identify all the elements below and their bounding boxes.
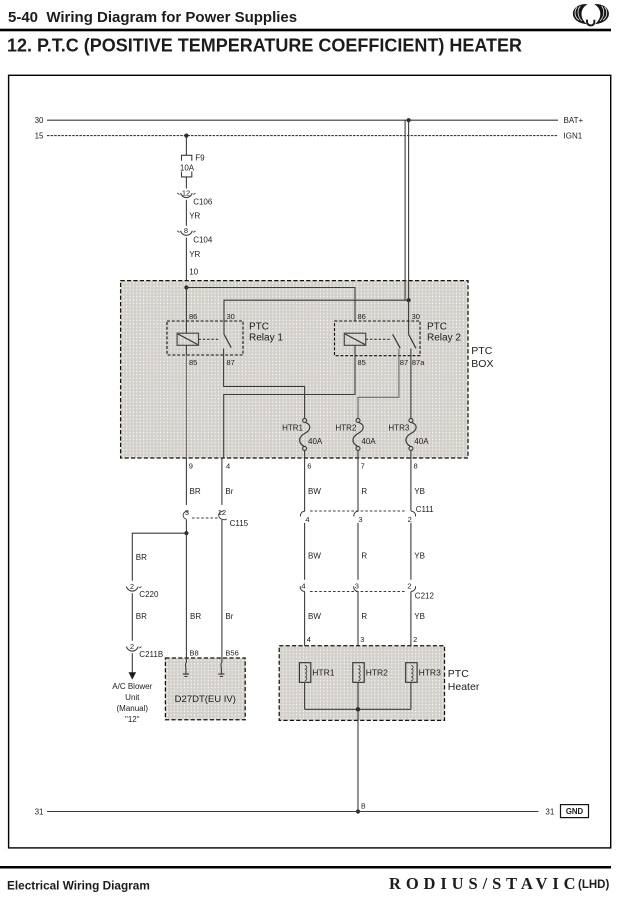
svg-text:YB: YB xyxy=(414,487,425,496)
svg-text:85: 85 xyxy=(189,358,197,367)
wire C220 to C211B, colour BR xyxy=(131,593,133,641)
svg-text:PTC: PTC xyxy=(448,668,469,680)
svg-text:40A: 40A xyxy=(361,437,376,446)
svg-text:BR: BR xyxy=(136,553,147,562)
svg-text:30: 30 xyxy=(412,312,420,321)
svg-text:3: 3 xyxy=(358,515,362,524)
svg-text:HTR2: HTR2 xyxy=(366,668,388,678)
svg-text:HTR1: HTR1 xyxy=(312,668,334,678)
svg-text:R: R xyxy=(361,612,367,621)
svg-text:PTC: PTC xyxy=(249,321,269,332)
wire C115 pin12 down to B56, colour Br xyxy=(221,519,223,651)
footer rule xyxy=(0,866,611,869)
wire battery junction to relay1 30 xyxy=(224,300,409,321)
wire C104 down, colour YR xyxy=(185,238,187,288)
junction node battery feed in box xyxy=(407,298,411,302)
svg-text:B8: B8 xyxy=(190,648,199,657)
wire ground line 31 xyxy=(47,811,539,813)
connector C111 pin 3 xyxy=(354,511,363,524)
wire HTR2 to bus xyxy=(357,682,359,709)
svg-text:(Manual): (Manual) xyxy=(117,704,149,713)
connector C212 pin 4 xyxy=(300,581,305,591)
svg-text:R: R xyxy=(361,487,367,496)
svg-text:BR: BR xyxy=(190,612,201,621)
relay K2 coil xyxy=(344,333,365,345)
relay K1 coil to switch link xyxy=(199,338,220,340)
svg-text:2: 2 xyxy=(408,515,412,524)
svg-text:BOX: BOX xyxy=(471,358,493,370)
svg-text:C211B: C211B xyxy=(139,650,163,659)
heater element HTR3 xyxy=(406,663,417,683)
wire HTR1 to bus xyxy=(304,682,306,709)
fuse HTR3 40A xyxy=(406,418,416,450)
wire relay K2 coil out to 85 xyxy=(354,345,356,355)
wire pin8 to C111 pin2, colour YB xyxy=(410,458,412,511)
heater element HTR2 xyxy=(353,663,364,683)
svg-text:12: 12 xyxy=(182,188,190,197)
relay K1 switch pin 30 stub xyxy=(223,321,225,334)
wire battery junction to relay2 30 xyxy=(408,300,410,334)
svg-text:31: 31 xyxy=(545,808,554,817)
wire B8 into box xyxy=(184,652,187,674)
svg-text:31: 31 xyxy=(35,808,44,817)
PTC BOX enclosure xyxy=(121,281,468,458)
wire line 15 IGN1 xyxy=(47,135,558,137)
wire B56 into box xyxy=(220,652,223,674)
relay K2 pin 87a stub xyxy=(410,349,412,356)
svg-text:C111: C111 xyxy=(416,505,434,514)
wire C212 pin3 to heater pin3, colour R xyxy=(357,592,359,663)
wire fuse HTR3 to box pin 8 xyxy=(410,450,412,458)
wire pin10 junction down to relay1 86 xyxy=(185,288,187,334)
connector C115 link xyxy=(192,517,219,519)
svg-text:YR: YR xyxy=(189,250,200,259)
svg-text:PTC: PTC xyxy=(471,345,492,357)
svg-text:40A: 40A xyxy=(308,437,323,446)
wire C115 pin3 down to junction xyxy=(185,519,187,533)
wire branch to A/C blower xyxy=(132,533,186,581)
junction node on line 31 xyxy=(356,809,360,813)
svg-text:YB: YB xyxy=(414,612,425,621)
svg-text:10: 10 xyxy=(189,268,198,277)
svg-text:2: 2 xyxy=(130,582,134,591)
battery feed double wire xyxy=(405,120,409,300)
svg-text:87: 87 xyxy=(400,358,408,367)
svg-text:8: 8 xyxy=(184,226,188,235)
svg-text:Relay 1: Relay 1 xyxy=(249,332,283,343)
GND box xyxy=(561,805,589,818)
wire fuse to C106 xyxy=(185,177,187,189)
svg-text:Heater: Heater xyxy=(448,681,480,693)
heater ground bus xyxy=(305,708,411,710)
svg-text:BW: BW xyxy=(308,612,321,621)
svg-text:2: 2 xyxy=(413,635,417,644)
svg-text:HTR1: HTR1 xyxy=(282,423,303,432)
wire pin10 junction to relay2 86 xyxy=(186,288,355,322)
wire C211B to arrow xyxy=(131,653,133,672)
wire pin9 to C115 pin3, colour BR xyxy=(185,458,187,505)
svg-text:5-40 Wiring Diagram for Power: 5-40 Wiring Diagram for Power Supplies xyxy=(8,9,297,26)
wire bus to ground line 31 xyxy=(357,709,359,811)
wire relay K2 85 to box pin 4 xyxy=(224,356,355,458)
svg-text:BAT+: BAT+ xyxy=(564,116,584,125)
svg-text:87: 87 xyxy=(227,358,235,367)
svg-text:86: 86 xyxy=(358,312,366,321)
svg-text:2: 2 xyxy=(130,642,134,651)
wire HTR3 to bus xyxy=(410,682,412,709)
svg-text:HTR3: HTR3 xyxy=(388,423,409,432)
fuse HTR2 40A xyxy=(353,418,363,450)
wire fuse HTR2 to box pin 7 xyxy=(357,450,359,458)
svg-text:4: 4 xyxy=(226,462,230,471)
svg-text:6: 6 xyxy=(307,462,311,471)
connector C104 pin 8 xyxy=(177,226,195,235)
svg-text:BW: BW xyxy=(308,551,321,560)
svg-text:15: 15 xyxy=(35,132,44,141)
svg-text:PTC: PTC xyxy=(427,321,447,332)
svg-text:2: 2 xyxy=(407,581,411,590)
relay K2 dashed outline xyxy=(335,321,421,356)
connector C115 pin 12 xyxy=(218,508,227,520)
relay K1 dashed outline xyxy=(167,321,243,355)
SsangYong logo xyxy=(573,4,609,25)
svg-text:Relay 2: Relay 2 xyxy=(427,332,461,343)
junction node pin10 in box xyxy=(184,285,188,289)
svg-text:3: 3 xyxy=(185,508,189,517)
heater element HTR1 xyxy=(299,663,310,683)
svg-text:3: 3 xyxy=(360,635,364,644)
svg-text:4: 4 xyxy=(301,581,305,590)
wire C212 pin4 to heater pin4, colour BW xyxy=(304,592,306,663)
svg-text:9: 9 xyxy=(189,462,193,471)
svg-text:YB: YB xyxy=(414,551,425,560)
D27DT engine ECU box xyxy=(165,658,245,720)
svg-text:Electrical Wiring Diagram: Electrical Wiring Diagram xyxy=(7,879,150,893)
svg-text:3: 3 xyxy=(355,581,359,590)
svg-text:87a: 87a xyxy=(412,358,425,367)
ground at B8 xyxy=(183,674,189,676)
connector C212 pin 2 xyxy=(407,581,415,591)
svg-text:B: B xyxy=(361,803,366,810)
relay K1 pin 87 stub xyxy=(223,349,225,356)
svg-text:BR: BR xyxy=(190,487,201,496)
ground at B56 xyxy=(218,674,224,676)
svg-text:8: 8 xyxy=(414,462,418,471)
wire C111 pin2 to C212 pin2, colour YB xyxy=(410,523,412,580)
wire relay K1 85 to box pin 9 xyxy=(185,355,187,458)
svg-text:F9: F9 xyxy=(195,153,205,162)
PTC Heater box xyxy=(279,646,444,721)
svg-text:4: 4 xyxy=(305,515,309,524)
connector C211B pin 2 xyxy=(126,642,141,651)
relay K2 pin 87 stub xyxy=(398,349,400,356)
svg-text:C104: C104 xyxy=(193,236,213,245)
wire junction down to B8, colour BR xyxy=(185,533,187,651)
svg-text:4: 4 xyxy=(307,635,311,644)
svg-text:"12": "12" xyxy=(125,715,140,724)
header rule xyxy=(0,29,611,32)
junction node to blower branch xyxy=(184,531,188,535)
junction on line 30 feeding PTC box xyxy=(407,118,411,122)
svg-text:10A: 10A xyxy=(180,163,195,172)
A/C Blower Unit text xyxy=(112,682,152,724)
fuse HTR1 40A xyxy=(300,418,310,450)
svg-text:GND: GND xyxy=(566,807,584,816)
connector C111 pin 2 xyxy=(408,511,416,524)
connector C111 link xyxy=(310,510,406,512)
wire pin6 to C111 pin4, colour BW xyxy=(304,458,306,511)
svg-text:YR: YR xyxy=(189,212,200,221)
svg-text:RODIUS/STAVIC: RODIUS/STAVIC xyxy=(389,874,580,893)
svg-text:86: 86 xyxy=(189,312,197,321)
wire C111 pin4 to C212 pin4, colour BW xyxy=(304,523,306,580)
svg-text:Br: Br xyxy=(225,487,233,496)
relay K1 contact arm xyxy=(224,334,231,347)
svg-text:C106: C106 xyxy=(193,197,213,206)
svg-text:D27DT(EU IV): D27DT(EU IV) xyxy=(175,694,236,705)
svg-text:85: 85 xyxy=(358,358,366,367)
wire C106 to C104, colour YR xyxy=(185,200,187,226)
svg-text:BW: BW xyxy=(308,487,321,496)
svg-text:12. P.T.C (POSITIVE TEMPERATUR: 12. P.T.C (POSITIVE TEMPERATURE COEFFICI… xyxy=(7,36,522,56)
connector C106 pin 12 xyxy=(177,188,195,197)
wire relay K1 87 to fuse HTR1 xyxy=(224,355,305,418)
svg-text:HTR2: HTR2 xyxy=(336,423,357,432)
wire relay K2 87a to fuse HTR3 xyxy=(410,356,412,419)
fuse F9 10A xyxy=(182,155,192,177)
svg-text:HTR3: HTR3 xyxy=(419,668,441,678)
svg-text:C212: C212 xyxy=(415,592,435,601)
relay K2 coil to switch link xyxy=(366,338,390,340)
wire fuse HTR1 to box pin 6 xyxy=(304,450,306,458)
connector C212 pin 3 xyxy=(354,581,359,591)
svg-text:BR: BR xyxy=(136,612,147,621)
svg-text:30: 30 xyxy=(35,116,44,125)
wire relay K2 87 to fuse HTR2 xyxy=(358,356,399,419)
junction on line 15 feeding F9 xyxy=(184,134,188,138)
arrow to A/C blower unit xyxy=(129,672,137,679)
relay K2 contact arm 87a xyxy=(409,334,416,348)
wire C212 pin2 to heater pin2, colour YB xyxy=(410,592,412,663)
connector C111 pin 4 xyxy=(300,511,309,524)
svg-text:Unit: Unit xyxy=(125,693,140,702)
svg-text:30: 30 xyxy=(227,312,235,321)
connector C115 pin 3 xyxy=(183,508,189,519)
svg-text:C220: C220 xyxy=(139,590,159,599)
wire pin7 to C111 pin3, colour R xyxy=(357,458,359,511)
junction node on bus xyxy=(356,707,360,711)
wire from line 15 down to fuse F9 xyxy=(185,136,187,156)
connector C212 link xyxy=(310,591,406,593)
svg-text:(LHD): (LHD) xyxy=(578,879,609,891)
svg-text:C115: C115 xyxy=(230,519,249,528)
svg-text:R: R xyxy=(361,551,367,560)
wire line 30 BAT+ xyxy=(47,119,558,121)
connector C220 pin 2 xyxy=(126,582,141,591)
svg-text:7: 7 xyxy=(361,462,365,471)
wire C111 pin3 to C212 pin3, colour R xyxy=(357,523,359,580)
svg-text:Br: Br xyxy=(225,612,233,621)
svg-text:A/C Blower: A/C Blower xyxy=(112,682,152,691)
svg-text:IGN1: IGN1 xyxy=(564,132,583,141)
wire pin4 to C115 pin12, colour Br xyxy=(221,458,223,505)
wire relay K1 coil out to 85 xyxy=(185,345,187,355)
relay K1 coil xyxy=(177,333,198,345)
relay K2 contact arm 87 xyxy=(393,334,401,348)
svg-text:B56: B56 xyxy=(225,648,238,657)
svg-text:40A: 40A xyxy=(414,437,429,446)
